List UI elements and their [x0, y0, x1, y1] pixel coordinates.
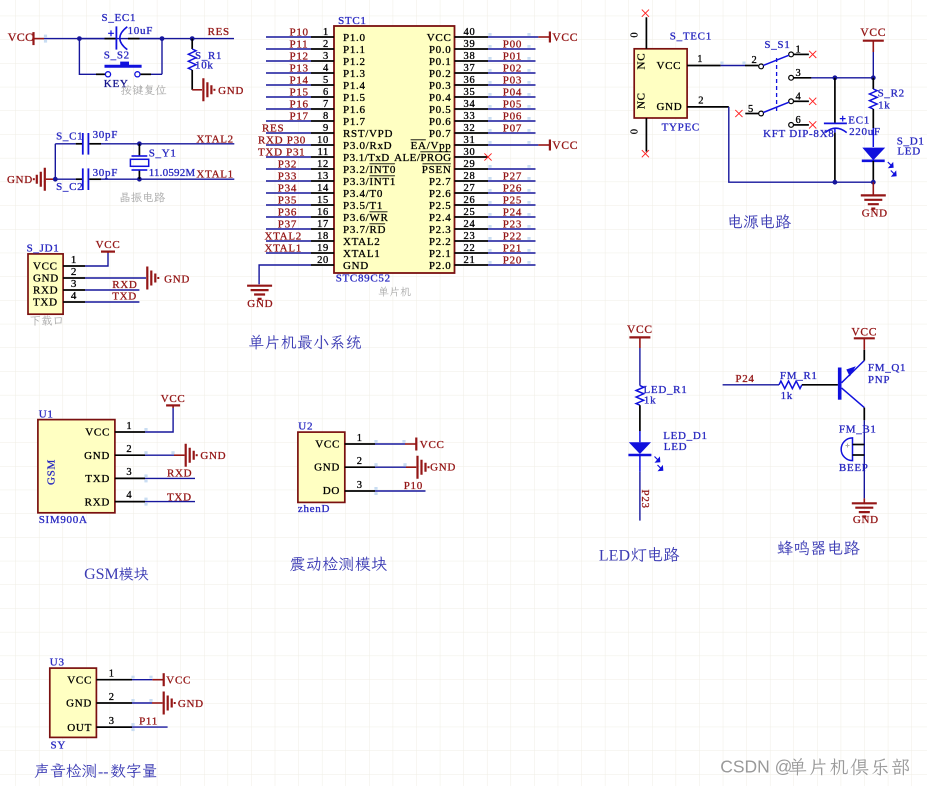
svg-text:17: 17	[317, 219, 329, 230]
resistor LED_R1 1k	[636, 384, 687, 431]
node junction EC1 top	[833, 75, 838, 80]
svg-text:VCC: VCC	[85, 427, 110, 439]
svg-text:18: 18	[317, 231, 329, 242]
svg-text:P1.4: P1.4	[343, 80, 366, 92]
pin 21 (P2.0)	[429, 254, 536, 272]
svg-text:LED: LED	[599, 547, 630, 564]
ground GND (MCU pin 20)	[247, 286, 273, 310]
svg-text:VCC: VCC	[161, 393, 186, 405]
svg-text:P1.3: P1.3	[343, 68, 366, 80]
caption 蜂鸣器电路	[778, 540, 860, 555]
LED LED_D1	[628, 430, 707, 472]
svg-text:2: 2	[109, 692, 115, 703]
U1 pin 4 RXD / TXD label	[115, 490, 195, 506]
wire right branch down to key	[140, 39, 162, 75]
U1 pin 3 TXD / RXD label	[115, 467, 195, 482]
pin 4 (P1.3)	[266, 62, 366, 80]
svg-text:P32: P32	[278, 158, 297, 170]
svg-text:P3.1/TxD: P3.1/TxD	[343, 152, 390, 164]
svg-text:P02: P02	[503, 62, 522, 74]
svg-text:1k: 1k	[781, 390, 793, 402]
svg-text:SY: SY	[51, 740, 66, 752]
svg-text:23: 23	[464, 231, 476, 242]
svg-text:KFT DIP-8X8: KFT DIP-8X8	[763, 128, 834, 140]
watermark CSDN	[720, 756, 910, 777]
svg-text:25: 25	[464, 207, 476, 218]
wire collector to buzzer/GND	[863, 420, 865, 498]
pin 20 (GND)	[259, 255, 369, 284]
svg-text:BEEP: BEEP	[839, 462, 869, 474]
pin 12 (P3.2/INT0)	[266, 158, 396, 176]
pin 18 (XTAL2)	[265, 230, 381, 248]
svg-text:zhenD: zhenD	[298, 503, 330, 515]
svg-text:P16: P16	[290, 98, 309, 110]
svg-text:P0.3: P0.3	[429, 80, 452, 92]
svg-text:GND: GND	[178, 698, 204, 710]
svg-text:8: 8	[323, 111, 329, 122]
svg-text:32: 32	[464, 123, 476, 134]
svg-text:1k: 1k	[878, 99, 890, 111]
caption 晶振电路	[120, 192, 165, 203]
svg-text:FM_B1: FM_B1	[839, 424, 877, 436]
pin 11 (P3.1/TxD)	[258, 146, 390, 164]
svg-text:P0.4: P0.4	[429, 92, 452, 104]
svg-text:U1: U1	[39, 408, 54, 420]
pin 25 (P2.4)	[429, 206, 536, 224]
pin 35 (P0.4)	[429, 86, 536, 104]
svg-text:TXD: TXD	[112, 290, 137, 302]
pin 24 (P2.3)	[429, 218, 536, 236]
power symbol VCC (U1)	[161, 393, 186, 408]
svg-text:KEY: KEY	[104, 78, 129, 90]
svg-text:P0.5: P0.5	[429, 104, 452, 116]
svg-text:P36: P36	[278, 206, 297, 218]
caption 按键复位	[121, 85, 166, 96]
svg-text:TXD P31: TXD P31	[258, 146, 305, 158]
svg-text:S_TEC1: S_TEC1	[670, 31, 712, 43]
wire P24 to FM_R1	[723, 384, 779, 386]
svg-text:VCC: VCC	[427, 32, 452, 44]
svg-text:DO: DO	[323, 485, 340, 497]
svg-text:P21: P21	[503, 242, 522, 254]
module U2 zhenD	[298, 420, 345, 514]
svg-text:0: 0	[630, 32, 641, 38]
LED S_D1	[862, 136, 925, 183]
pin 40 (VCC)	[427, 27, 578, 44]
node junction VCC rail	[871, 75, 876, 80]
svg-text:VCC: VCC	[67, 674, 92, 686]
svg-text:11: 11	[317, 147, 329, 158]
U3 pin 2 GND	[96, 692, 162, 703]
svg-text:4: 4	[126, 490, 132, 501]
overline RD	[369, 223, 385, 225]
caption 下载口	[30, 315, 61, 325]
svg-text:36: 36	[464, 75, 476, 86]
svg-text:0: 0	[630, 128, 641, 134]
svg-text:--: --	[98, 763, 109, 780]
svg-text:PSEN: PSEN	[422, 164, 452, 176]
svg-text:P10: P10	[404, 480, 423, 492]
capacitor S_C1 30pF	[55, 129, 120, 154]
svg-text:P3.7/RD: P3.7/RD	[343, 224, 386, 236]
svg-text:RES: RES	[208, 26, 230, 38]
svg-text:2: 2	[752, 55, 758, 66]
svg-text:11.0592M: 11.0592M	[149, 167, 196, 179]
svg-text:P1.2: P1.2	[343, 56, 366, 68]
U1 pin 2 GND	[115, 444, 185, 455]
svg-text:P0.7: P0.7	[429, 128, 452, 140]
svg-text:GND: GND	[200, 450, 226, 462]
net label P23 (vertical)	[639, 490, 651, 509]
svg-text:39: 39	[464, 39, 476, 50]
wire XTAL2	[120, 143, 234, 145]
svg-text:GND: GND	[84, 450, 110, 462]
svg-text:STC89C52: STC89C52	[336, 272, 391, 284]
overline INT0	[369, 163, 395, 165]
pin 13 (P3.3/INT1)	[266, 170, 396, 188]
svg-text:GND: GND	[657, 101, 683, 113]
svg-text:P11: P11	[139, 716, 158, 728]
svg-text:EA/Vpp: EA/Vpp	[411, 140, 452, 152]
svg-text:VCC: VCC	[166, 675, 191, 687]
svg-text:STC1: STC1	[338, 15, 366, 27]
svg-text:P04: P04	[503, 86, 522, 98]
svg-text:LED: LED	[897, 146, 920, 158]
connector S_JD1	[27, 243, 64, 315]
svg-text:P05: P05	[503, 98, 522, 110]
wire VCC rail to RES	[44, 35, 234, 43]
svg-text:XTAL2: XTAL2	[265, 230, 302, 242]
pin 38 (P0.1)	[429, 50, 536, 68]
svg-text:VCC: VCC	[315, 439, 340, 451]
net label XTAL1	[196, 169, 233, 181]
svg-text:GND: GND	[164, 274, 190, 286]
svg-text:P1.0: P1.0	[343, 32, 366, 44]
svg-text:26: 26	[464, 195, 476, 206]
svg-text:GSM: GSM	[84, 566, 119, 583]
svg-text:12: 12	[317, 159, 329, 170]
svg-text:P23: P23	[503, 218, 522, 230]
svg-text:P2.6: P2.6	[429, 188, 452, 200]
svg-text:P2.3: P2.3	[429, 224, 452, 236]
node junction resistor top	[190, 36, 195, 41]
svg-text:P24: P24	[503, 206, 522, 218]
svg-text:RES: RES	[262, 122, 284, 134]
svg-text:P1.6: P1.6	[343, 104, 366, 116]
svg-text:13: 13	[317, 171, 329, 182]
pin 3 (P1.2)	[266, 50, 366, 68]
ground GND (reset)	[192, 78, 244, 101]
power symbol VCC (reset rail)	[8, 30, 44, 45]
svg-text:VCC: VCC	[860, 27, 886, 39]
pin 1 (P1.0)	[266, 26, 366, 44]
svg-text:RXD: RXD	[112, 279, 137, 291]
svg-text:P23: P23	[639, 490, 651, 509]
ground GND (power circuit)	[861, 182, 888, 219]
svg-text:TYPEC: TYPEC	[662, 121, 700, 133]
svg-text:CSDN @: CSDN @	[720, 756, 792, 776]
power symbol VCC (LED circuit)	[627, 324, 653, 386]
net label KEY	[104, 78, 129, 90]
pin 9 (RST/VPD)	[262, 122, 393, 140]
svg-text:NC: NC	[635, 53, 647, 70]
svg-text:VCC: VCC	[851, 327, 877, 339]
switch S_S2 KEY	[104, 49, 142, 77]
node junction crystal left	[53, 177, 58, 182]
svg-text:LED: LED	[664, 441, 687, 453]
overline EA	[411, 139, 426, 141]
svg-text:TXD: TXD	[33, 297, 58, 309]
capacitor S_EC1 10uF	[79, 12, 162, 50]
svg-text:P10: P10	[290, 26, 309, 38]
node junction left	[77, 36, 82, 41]
pin 36 (P0.3)	[429, 74, 536, 92]
svg-text:XTAL1: XTAL1	[343, 248, 380, 260]
svg-text:P07: P07	[503, 122, 522, 134]
svg-text:P24: P24	[735, 373, 754, 385]
net label XTAL2	[196, 133, 233, 145]
svg-text:10uF: 10uF	[128, 25, 153, 37]
svg-text:GND: GND	[862, 207, 888, 219]
svg-text:GND: GND	[218, 85, 244, 97]
svg-text:3: 3	[109, 716, 115, 727]
svg-text:OUT: OUT	[67, 722, 92, 734]
pin 1 (VCC)	[63, 253, 108, 266]
svg-text:P0.2: P0.2	[429, 68, 452, 80]
pin 15 (P3.5/T1)	[266, 194, 383, 212]
svg-text:VCC: VCC	[552, 32, 578, 44]
svg-text:3: 3	[323, 51, 329, 62]
pin 19 (XTAL1)	[265, 242, 381, 260]
pin 27 (P2.6)	[429, 182, 536, 200]
svg-text:GND: GND	[343, 260, 369, 272]
svg-text:EC1: EC1	[848, 114, 870, 126]
pin 4 (TXD)	[63, 290, 139, 302]
svg-text:XTAL2: XTAL2	[196, 133, 233, 145]
no-connect X pin5 of S_S1	[735, 110, 742, 117]
capacitor EC1 220uF	[824, 78, 881, 182]
svg-text:P1.7: P1.7	[343, 116, 366, 128]
power symbol VCC (U3)	[152, 673, 191, 686]
pin 39 (P0.0)	[429, 38, 536, 56]
svg-text:RXD P30: RXD P30	[258, 134, 306, 146]
svg-text:P2.4: P2.4	[429, 212, 452, 224]
svg-text:U3: U3	[50, 657, 65, 669]
svg-text:GND: GND	[853, 514, 879, 526]
svg-text:P3.5/T1: P3.5/T1	[343, 200, 383, 212]
connector S_TEC1 TYPEC	[634, 31, 712, 134]
svg-text:16: 16	[317, 207, 329, 218]
svg-text:4: 4	[71, 290, 77, 302]
svg-text:S_Y1: S_Y1	[149, 148, 177, 160]
svg-text:RXD: RXD	[167, 468, 192, 480]
svg-text:28: 28	[464, 171, 476, 182]
wire crystal left rail	[54, 144, 56, 179]
no-connect X pin1 of S_S1	[809, 51, 816, 58]
svg-text:14: 14	[317, 183, 329, 194]
svg-text:P22: P22	[503, 230, 522, 242]
svg-text:P2.2: P2.2	[429, 236, 452, 248]
svg-text:P0.6: P0.6	[429, 116, 452, 128]
caption LED灯电路	[599, 547, 679, 564]
svg-text:P14: P14	[290, 74, 309, 86]
svg-text:220uF: 220uF	[849, 126, 881, 138]
svg-text:GND: GND	[430, 462, 456, 474]
power symbol VCC (buzzer)	[851, 327, 877, 350]
pin 37 (P0.2)	[429, 62, 536, 80]
wire left branch down to key	[79, 39, 105, 75]
svg-text:10k: 10k	[195, 60, 214, 72]
node junction bottom LED	[871, 180, 876, 185]
svg-text:30: 30	[464, 147, 476, 158]
svg-text:1: 1	[126, 421, 132, 432]
pin 0 top no-connect	[630, 10, 650, 49]
svg-text:GND: GND	[314, 462, 340, 474]
svg-text:31: 31	[464, 135, 476, 146]
svg-text:P1.1: P1.1	[343, 44, 366, 56]
MCU chip STC1 body	[334, 15, 455, 284]
pin 2 GND wire down	[687, 96, 873, 183]
pin 2 (GND)	[63, 266, 146, 278]
power symbol VCC (S_JD1)	[96, 239, 121, 253]
power symbol VCC (U2)	[405, 438, 445, 451]
caption 电源电路	[729, 214, 791, 229]
svg-text:2: 2	[126, 444, 132, 455]
caption 单片机最小系统	[249, 335, 361, 350]
ground GND (S_JD1)	[147, 267, 190, 290]
pin 0 bottom no-connect	[630, 118, 650, 157]
ground GND (U2)	[418, 456, 457, 479]
svg-text:VCC: VCC	[33, 261, 58, 273]
svg-text:P2.7: P2.7	[429, 176, 452, 188]
pin 16 (P3.6/WR)	[266, 206, 389, 224]
svg-text:38: 38	[464, 51, 476, 62]
node junction cap right	[160, 36, 165, 41]
svg-text:2: 2	[71, 266, 77, 278]
svg-text:37: 37	[464, 63, 476, 74]
svg-text:P34: P34	[278, 182, 297, 194]
svg-text:29: 29	[464, 159, 476, 170]
resistor S_R2 1k	[870, 78, 905, 147]
pin 3 (RXD)	[63, 278, 139, 291]
svg-text:TXD: TXD	[167, 491, 192, 503]
pin 28 (P2.7)	[429, 170, 536, 188]
pin 33 (P0.6)	[429, 110, 536, 128]
U2 pin 2 GND	[345, 456, 417, 467]
svg-text:S_C2: S_C2	[56, 181, 83, 193]
svg-text:VCC: VCC	[657, 60, 682, 72]
wire XTAL1	[120, 178, 234, 180]
svg-text:SIM900A: SIM900A	[39, 514, 88, 526]
svg-text:GND: GND	[66, 698, 92, 710]
module U3 SY	[50, 657, 97, 752]
ground GND (U1)	[186, 444, 227, 467]
U2 pin 1 VCC	[345, 433, 406, 444]
svg-text:P20: P20	[503, 254, 522, 266]
pin 14 (P3.4/T0)	[266, 182, 383, 200]
svg-text:34: 34	[464, 99, 476, 110]
module U1 SIM900A	[38, 408, 115, 526]
pin 34 (P0.5)	[429, 98, 536, 116]
caption 震动检测模块	[290, 556, 387, 571]
svg-text:P2.5: P2.5	[429, 200, 452, 212]
svg-text:10: 10	[317, 135, 329, 146]
svg-text:P2.1: P2.1	[429, 248, 452, 260]
svg-text:33: 33	[464, 111, 476, 122]
svg-text:1: 1	[357, 433, 363, 444]
pin 26 (P2.5)	[429, 194, 536, 212]
svg-text:30pF: 30pF	[93, 167, 118, 179]
svg-text:P35: P35	[278, 194, 297, 206]
svg-text:GSM: GSM	[46, 459, 58, 485]
pin 29 (PSEN)	[422, 159, 536, 176]
svg-text:TXD: TXD	[85, 473, 110, 485]
svg-text:GND: GND	[7, 174, 33, 186]
svg-text:P1.5: P1.5	[343, 92, 366, 104]
svg-text:S_R2: S_R2	[878, 88, 905, 100]
svg-text:S_EC1: S_EC1	[102, 12, 137, 24]
pin 17 (P3.7/RD)	[266, 218, 386, 236]
svg-text:NC: NC	[635, 92, 647, 109]
svg-text:P12: P12	[290, 50, 309, 62]
svg-text:24: 24	[464, 219, 476, 230]
svg-text:P03: P03	[503, 74, 522, 86]
resistor S_R1 10k	[188, 39, 222, 90]
pin 1 VCC wire to switch	[687, 54, 758, 66]
svg-text:P27: P27	[503, 170, 522, 182]
pin 8 (P1.7)	[266, 110, 366, 128]
svg-text:VCC: VCC	[420, 439, 445, 451]
svg-text:P3.6/WR: P3.6/WR	[343, 212, 389, 224]
svg-text:P01: P01	[503, 50, 522, 62]
no-connect X pin4 of S_S1	[809, 98, 816, 105]
svg-text:9: 9	[323, 123, 329, 134]
svg-text:3: 3	[126, 467, 132, 478]
caption 声音检测--数字量	[35, 763, 157, 780]
svg-text:1: 1	[697, 54, 703, 65]
power symbol VCC (power circuit)	[860, 27, 886, 78]
svg-text:S_C1: S_C1	[56, 131, 83, 143]
no-connect X on pin 30	[484, 153, 491, 160]
svg-text:RST/VPD: RST/VPD	[343, 128, 393, 140]
pin 23 (P2.2)	[429, 230, 536, 248]
no-connect X pin6 of S_S1	[809, 121, 816, 128]
net label P24	[735, 373, 754, 385]
svg-text:P25: P25	[503, 194, 522, 206]
svg-text:1: 1	[71, 254, 77, 266]
svg-text:XTAL2: XTAL2	[343, 236, 380, 248]
pin 7 (P1.6)	[266, 98, 366, 116]
svg-text:P3.0/RxD: P3.0/RxD	[343, 140, 392, 152]
pin 32 (P0.7)	[429, 122, 536, 140]
svg-text:P0.0: P0.0	[429, 44, 452, 56]
svg-text:P15: P15	[290, 86, 309, 98]
wire LED to P23	[639, 472, 641, 521]
svg-text:21: 21	[464, 255, 476, 266]
svg-text:4: 4	[323, 63, 329, 74]
svg-text:VCC: VCC	[8, 30, 34, 44]
switch S_S1 (DPDT)	[745, 39, 834, 140]
svg-text:XTAL1: XTAL1	[265, 242, 302, 254]
svg-text:P33: P33	[278, 170, 297, 182]
svg-text:P17: P17	[290, 110, 309, 122]
wire switch pin3 to VCC rail	[811, 77, 873, 79]
svg-text:2: 2	[698, 96, 704, 107]
svg-text:VCC: VCC	[96, 239, 121, 251]
svg-text:3: 3	[357, 480, 363, 491]
svg-text:S_S1: S_S1	[764, 39, 790, 51]
svg-text:P06: P06	[503, 110, 522, 122]
